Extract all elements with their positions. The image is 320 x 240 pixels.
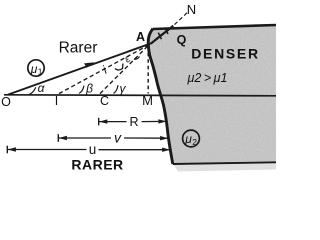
- svg-text:N: N: [187, 2, 196, 17]
- svg-text:C: C: [100, 94, 109, 108]
- svg-text:RARER: RARER: [71, 157, 123, 173]
- svg-text:β: β: [85, 82, 93, 96]
- svg-text:1: 1: [38, 67, 43, 77]
- svg-text:2: 2: [192, 137, 197, 147]
- svg-text:O: O: [1, 95, 11, 109]
- svg-text:M: M: [142, 93, 153, 108]
- svg-text:I: I: [55, 94, 58, 108]
- svg-text:R: R: [129, 115, 138, 129]
- svg-text:Q: Q: [177, 33, 187, 47]
- svg-text:γ: γ: [120, 82, 127, 96]
- svg-text:u: u: [89, 142, 97, 157]
- svg-text:μ: μ: [30, 62, 38, 76]
- svg-text:v: v: [114, 130, 122, 146]
- svg-text:A: A: [136, 30, 145, 44]
- svg-text:μ2 > μ1: μ2 > μ1: [187, 71, 228, 85]
- svg-text:DENSER: DENSER: [191, 46, 260, 62]
- svg-text:α: α: [38, 81, 46, 95]
- svg-text:Rarer: Rarer: [59, 40, 98, 57]
- svg-text:μ: μ: [184, 132, 192, 146]
